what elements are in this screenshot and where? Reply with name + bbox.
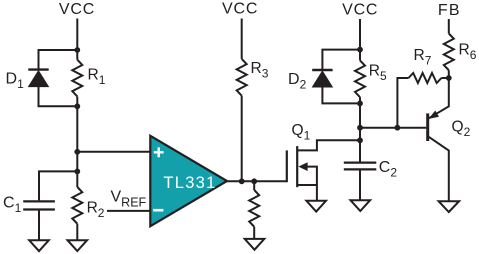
wire Q2 emitter [429,78,449,118]
transistor Q1 N-MOSFET [286,150,288,182]
node base-wire junction [357,125,363,131]
ground (Q2 collector) [439,201,460,212]
resistor R1 [72,60,82,97]
svg-text:R3: R3 [251,60,269,80]
capacitor C2 [344,162,377,164]
resistor R7 [409,73,442,83]
wire left rail middle (R1 bottom through nodes to R2 top) [76,96,78,187]
wire R6 bottom lead [448,70,450,78]
diode D2 [312,69,332,71]
svg-text:Q2: Q2 [452,119,471,139]
wire R3 to output node [241,96,243,182]
svg-text:R5: R5 [369,63,387,83]
wire D2 top branch [322,50,360,70]
transistor Q2 PNP [426,113,429,141]
svg-text:R7: R7 [414,47,432,67]
node output/R3 junction [239,178,245,184]
node R7 branch on base wire [395,125,401,131]
node D2/R5 bottom junction [357,101,363,107]
resistor R5 [355,60,365,97]
wire D1 top branch [39,50,78,70]
svg-text:VCC: VCC [342,2,378,19]
wire Q1 drain [297,140,360,150]
op-amp U1 TL331 comparator triangle [150,136,227,226]
minus input marker [153,209,163,212]
wire VCC left rail top [76,19,78,60]
wire comparator output [227,180,287,182]
ground (C1) [29,240,49,251]
wire C1 branch [39,171,77,200]
wire C1 to ground [38,211,40,241]
wire Q1 source [297,185,317,201]
ground (pulldown) [245,239,265,250]
svg-text:R1: R1 [88,67,106,87]
diode D1 [28,68,48,70]
wire D2 bottom branch [322,87,360,103]
svg-text:R6: R6 [459,42,477,62]
svg-text:R2: R2 [87,200,105,220]
svg-text:FB: FB [438,2,461,19]
node drain-wire junction [357,137,363,143]
node D1/R1 top junction [74,47,80,53]
node output/pulldown junction [251,178,257,184]
node + input branch [74,149,80,155]
svg-text:C1: C1 [3,195,22,215]
wire Q2 base [360,127,426,129]
node D1/R1 bottom junction [74,103,80,109]
Q1 body arrow [298,162,307,171]
wire right rail R5 to C2 [359,97,361,161]
wire Q2 collector [429,137,449,201]
resistor pulldown (unlabeled) [249,190,259,227]
svg-text:VCC: VCC [222,1,258,18]
ground (C2) [351,200,371,211]
svg-text:TL331: TL331 [163,174,216,192]
plus input marker [154,147,164,157]
resistor R3 [237,59,247,96]
wire VCC middle rail [241,19,243,59]
wire C2 to ground [359,170,361,200]
resistor R2 [72,187,82,224]
resistor R6 [444,34,454,71]
ground (R2) [68,240,88,251]
ground (Q1 source) [306,201,326,212]
wire pulldown to ground [253,227,255,239]
wire VREF to - input [107,210,150,212]
wire to comparator + input [77,151,150,153]
Q2 emitter arrow [429,111,439,119]
svg-text:Q1: Q1 [292,122,311,142]
node D2/R5 top junction [357,47,363,53]
wire R2 to ground [76,224,78,240]
capacitor C1 [23,200,55,202]
svg-text:VCC: VCC [59,1,95,18]
wire R7 left branch [397,78,408,128]
wire VCC right rail [359,19,361,60]
svg-text:C2: C2 [379,159,398,179]
node C1 branch [74,169,80,175]
wire R7 right lead [441,77,448,79]
wire FB lead [448,19,450,34]
wire pulldown resistor top lead [253,181,255,190]
svg-text:VREF: VREF [111,188,147,209]
svg-text:D2: D2 [288,71,307,91]
node R6/R7/emitter junction [446,75,452,81]
wire D1 bottom branch [39,87,78,107]
svg-text:D1: D1 [6,71,25,91]
